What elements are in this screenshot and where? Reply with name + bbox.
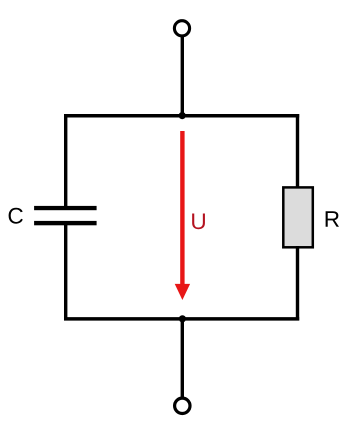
node top junction [179,112,186,119]
label C [9,208,23,224]
wire bottom lead [181,317,184,397]
terminal T2 (bottom) [175,398,190,413]
wire bottom horizontal [64,317,299,321]
wire left upper [64,114,67,207]
resistor R body [283,187,313,247]
wire top horizontal [64,114,299,118]
capacitor C bottom plate [34,221,97,225]
wire left lower [64,225,67,321]
capacitor C top plate [34,206,97,210]
terminal T1 (top) [174,21,189,36]
label U [192,214,205,230]
voltage arrow U [175,131,190,300]
wire right upper [296,114,299,189]
label R [326,211,339,226]
wire top lead [181,37,184,116]
wire right lower [296,246,299,321]
node bottom junction [179,315,186,322]
